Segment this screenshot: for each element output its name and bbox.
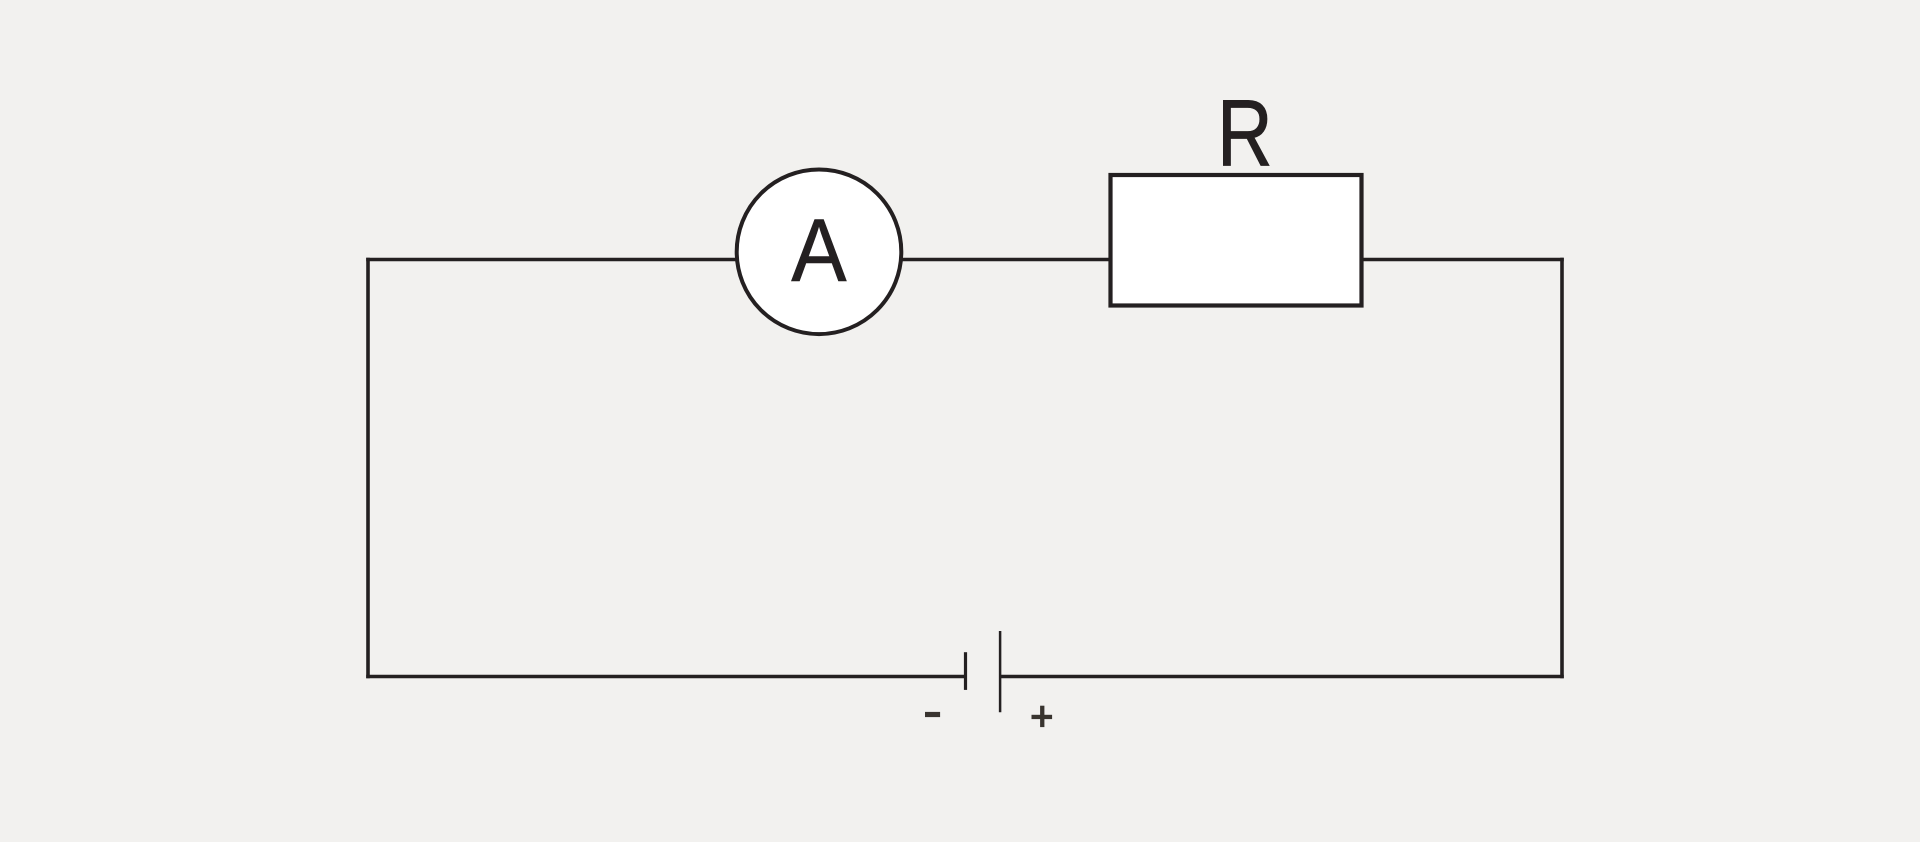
- wire: left vertical: [366, 258, 370, 679]
- svg-text:A: A: [791, 201, 847, 300]
- battery negative plate (short): [964, 652, 967, 690]
- wire: right vertical: [1560, 258, 1564, 679]
- wire: bottom horizontal (battery to right corner): [1000, 675, 1564, 679]
- resistor R body: [1111, 175, 1362, 306]
- svg-text:R: R: [1217, 81, 1273, 186]
- ammeter U1 circle: [737, 170, 902, 335]
- wire: top horizontal (ammeter to resistor): [898, 258, 1112, 262]
- battery plus label: [1032, 706, 1053, 727]
- wire: bottom horizontal (left segment to battery): [366, 675, 965, 679]
- battery positive plate (long): [999, 631, 1002, 712]
- wire: top horizontal (resistor to right corner): [1360, 258, 1564, 262]
- battery minus label: [925, 712, 940, 717]
- wire: top horizontal (left segment to ammeter): [366, 258, 740, 262]
